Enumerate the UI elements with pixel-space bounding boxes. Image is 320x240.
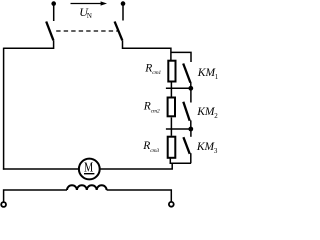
node: junction 2 dot [188, 127, 193, 132]
wire: field circuit left drop to terminal [4, 190, 67, 202]
svg-text:ст2: ст2 [151, 108, 160, 114]
wire: KM1 branch top [171, 52, 191, 62]
wire: KM2 branch top [190, 88, 192, 102]
contact KM2 blade [183, 102, 189, 121]
wire: field circuit right [107, 190, 172, 202]
svg-text:3: 3 [214, 147, 218, 155]
svg-text:2: 2 [214, 112, 218, 120]
terminal: field right open circle [169, 202, 174, 207]
wire: chain bottom horizontal [170, 162, 191, 164]
wire: below left blade [4, 40, 54, 48]
svg-text:ст3: ст3 [150, 148, 159, 154]
terminal: field left open circle [1, 202, 6, 207]
resistor Rst2 [168, 98, 175, 117]
resistor Rst1 [168, 61, 175, 82]
wire: below right blade to chain top [123, 40, 171, 60]
inductor field winding LM [67, 185, 107, 190]
wire: junction 1 to Rst2 [170, 88, 172, 96]
svg-text:R: R [142, 140, 150, 152]
wire: KM1 blade to junction 1 [190, 82, 192, 89]
wire: right supply terminal stub [122, 4, 124, 21]
wire: switch coupling dashed link [56, 30, 117, 32]
motor M armature circle [79, 159, 100, 180]
svg-text:R: R [143, 101, 151, 113]
switch QS pole 1 blade [46, 22, 53, 41]
svg-text:N: N [87, 12, 92, 20]
wire: KM3 branch top [190, 129, 192, 137]
wire: KM2 blade to junction 2 [190, 120, 192, 129]
wire: UN arrow shaft [71, 3, 103, 5]
wire: junction 1 horizontal [166, 87, 191, 89]
node: junction 1 dot [188, 86, 193, 91]
UN arrow head [101, 1, 107, 5]
wire: motor to resistor chain bottom [100, 163, 173, 169]
contact KM1 blade [183, 64, 190, 83]
switch QS pole 2 blade [115, 22, 123, 41]
contact KM3 blade [183, 137, 189, 154]
svg-text:1: 1 [215, 73, 219, 81]
wire: Rst3 bottom to chain bottom [169, 158, 171, 164]
wire: motor feed left [3, 168, 78, 170]
node: right supply terminal dot [121, 1, 126, 6]
wire: junction 2 horizontal [166, 128, 191, 130]
motor underline [84, 173, 94, 175]
wire: Rst2 bottom to junction 2 [170, 118, 172, 130]
wire: Rst1 bottom to junction 1 [170, 83, 172, 89]
svg-text:KM: KM [197, 67, 217, 79]
wire: KM3 blade to chain bottom [190, 153, 192, 163]
svg-text:R: R [144, 62, 152, 74]
svg-text:KM: KM [196, 141, 216, 153]
svg-text:ст1: ст1 [152, 70, 161, 76]
svg-text:KM: KM [196, 106, 216, 118]
wire: junction 2 to Rst3 [170, 129, 172, 136]
wire: left supply terminal stub [53, 4, 55, 21]
wire: left bus vertical [3, 48, 5, 170]
resistor Rst3 [168, 137, 176, 158]
node: left supply terminal dot [51, 1, 56, 6]
